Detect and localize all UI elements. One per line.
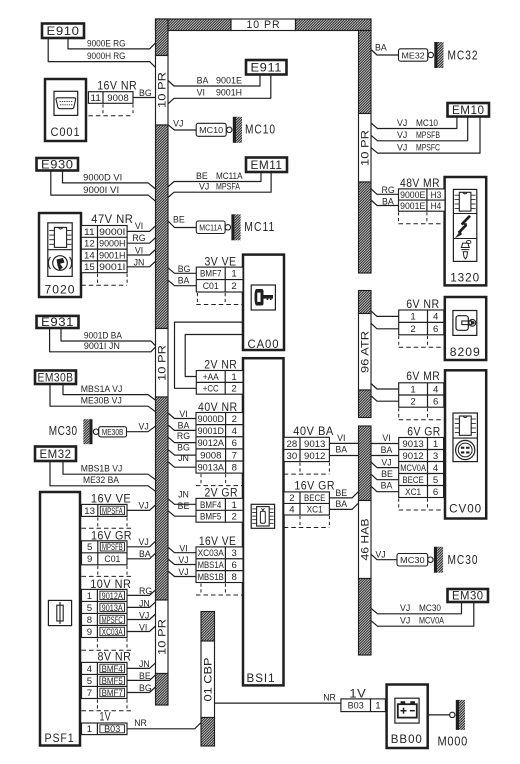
- svg-text:VI: VI: [179, 409, 187, 419]
- svg-text:4: 4: [289, 505, 294, 515]
- svg-text:16V NR: 16V NR: [97, 81, 137, 93]
- svg-text:10 PR: 10 PR: [360, 130, 372, 166]
- svg-text:ME30B: ME30B: [102, 427, 124, 437]
- svg-text:3: 3: [232, 548, 237, 558]
- svg-text:BG: BG: [139, 88, 152, 98]
- svg-text:1320: 1320: [450, 270, 480, 284]
- svg-text:MPSFB: MPSFB: [416, 130, 440, 140]
- svg-text:40V BA: 40V BA: [293, 426, 334, 438]
- svg-text:9012: 9012: [402, 451, 423, 461]
- svg-text:CV00: CV00: [449, 501, 482, 515]
- svg-text:2: 2: [289, 493, 294, 503]
- svg-text:BMF5: BMF5: [200, 512, 221, 522]
- svg-text:MC11A: MC11A: [199, 223, 222, 233]
- svg-text:VJ: VJ: [400, 603, 410, 613]
- svg-text:6: 6: [433, 487, 438, 497]
- svg-text:MPSFA: MPSFA: [216, 182, 240, 192]
- svg-text:VJ: VJ: [139, 610, 149, 620]
- svg-text:9: 9: [87, 554, 92, 564]
- svg-text:1: 1: [87, 724, 92, 734]
- svg-text:6: 6: [232, 560, 237, 570]
- svg-text:1: 1: [87, 591, 92, 601]
- svg-text:JN: JN: [178, 490, 189, 500]
- svg-text:40V NR: 40V NR: [198, 402, 238, 414]
- svg-text:BA: BA: [382, 196, 394, 206]
- svg-text:MC30: MC30: [49, 424, 78, 438]
- svg-text:2: 2: [232, 414, 237, 424]
- svg-text:9000I VI: 9000I VI: [83, 185, 119, 195]
- svg-text:MBS1A: MBS1A: [198, 560, 225, 570]
- svg-text:10 PR: 10 PR: [157, 619, 169, 655]
- svg-text:8209: 8209: [450, 345, 481, 359]
- svg-text:9000H: 9000H: [99, 239, 125, 249]
- svg-text:BG: BG: [177, 442, 190, 452]
- svg-text:VJ: VJ: [400, 616, 410, 626]
- svg-text:4: 4: [232, 426, 237, 436]
- svg-text:4: 4: [433, 384, 438, 394]
- svg-text:5: 5: [87, 603, 92, 613]
- svg-text:9001D: 9001D: [198, 426, 225, 436]
- svg-text:PSF1: PSF1: [45, 731, 75, 745]
- svg-text:BB00: BB00: [391, 732, 423, 746]
- svg-text:16V VE: 16V VE: [199, 536, 237, 548]
- svg-text:VJ: VJ: [375, 549, 385, 559]
- svg-text:EM30B: EM30B: [38, 372, 74, 384]
- svg-text:BE: BE: [381, 469, 393, 479]
- svg-text:9000I: 9000I: [99, 227, 125, 237]
- svg-text:C001: C001: [51, 125, 81, 139]
- svg-text:16V GR: 16V GR: [294, 480, 335, 492]
- svg-text:11: 11: [84, 227, 95, 237]
- svg-text:VJ: VJ: [139, 422, 149, 432]
- svg-text:8V NR: 8V NR: [97, 652, 131, 664]
- svg-text:MC32: MC32: [448, 48, 479, 62]
- svg-text:VI: VI: [337, 433, 345, 443]
- svg-text:RG: RG: [132, 233, 145, 243]
- svg-text:9001E: 9001E: [216, 75, 242, 85]
- svg-text:9: 9: [87, 627, 92, 637]
- svg-text:5: 5: [87, 676, 92, 686]
- svg-text:3V VE: 3V VE: [205, 256, 237, 268]
- svg-text:BA: BA: [381, 445, 393, 455]
- svg-text:6: 6: [232, 438, 237, 448]
- svg-text:NR: NR: [323, 693, 336, 703]
- svg-text:7: 7: [232, 450, 237, 460]
- svg-text:9001H: 9001H: [99, 250, 125, 260]
- svg-text:2: 2: [232, 512, 237, 522]
- svg-text:MCV0A: MCV0A: [400, 463, 426, 473]
- svg-text:2: 2: [410, 397, 415, 407]
- svg-text:VI: VI: [382, 433, 390, 443]
- svg-text:CA00: CA00: [248, 337, 280, 351]
- svg-text:VI: VI: [139, 622, 147, 632]
- svg-text:2: 2: [231, 384, 236, 394]
- svg-text:4: 4: [87, 664, 92, 674]
- svg-text:VI: VI: [135, 245, 143, 255]
- svg-text:2V NR: 2V NR: [204, 359, 237, 371]
- svg-text:ME32 BA: ME32 BA: [83, 475, 119, 485]
- svg-text:M000: M000: [438, 735, 469, 749]
- svg-text:MC30: MC30: [448, 553, 479, 567]
- svg-text:BE: BE: [335, 488, 347, 498]
- svg-text:H3: H3: [431, 190, 442, 200]
- svg-text:9001H: 9001H: [216, 88, 242, 98]
- svg-text:9001D BA: 9001D BA: [84, 330, 122, 340]
- svg-text:9013: 9013: [402, 439, 423, 449]
- svg-text:28: 28: [287, 439, 298, 449]
- svg-text:BE: BE: [196, 171, 208, 181]
- svg-text:XC03A: XC03A: [198, 548, 225, 558]
- svg-text:JN: JN: [139, 659, 150, 669]
- svg-text:MC10: MC10: [245, 122, 276, 136]
- svg-text:BE: BE: [139, 671, 151, 681]
- svg-text:BG: BG: [178, 264, 191, 274]
- svg-text:VJ: VJ: [397, 118, 407, 128]
- svg-text:MC10: MC10: [199, 125, 223, 135]
- svg-text:BA: BA: [197, 75, 209, 85]
- svg-text:BA: BA: [139, 549, 151, 559]
- svg-text:MBS1A VJ: MBS1A VJ: [81, 384, 123, 394]
- svg-text:13: 13: [84, 506, 95, 516]
- svg-text:MBS1B VJ: MBS1B VJ: [81, 464, 123, 474]
- svg-text:BSI1: BSI1: [247, 671, 276, 685]
- svg-text:7020: 7020: [45, 282, 76, 296]
- svg-text:16V VE: 16V VE: [91, 494, 131, 506]
- svg-text:1: 1: [231, 269, 236, 279]
- svg-text:9013A: 9013A: [198, 462, 225, 472]
- svg-text:46 HAB: 46 HAB: [360, 519, 372, 561]
- svg-text:EM32: EM32: [40, 449, 72, 461]
- svg-text:VJ: VJ: [178, 555, 188, 565]
- svg-text:9001I JN: 9001I JN: [84, 341, 120, 351]
- svg-text:1: 1: [410, 384, 415, 394]
- svg-text:1: 1: [232, 500, 237, 510]
- svg-text:9000E: 9000E: [400, 190, 425, 200]
- svg-text:9008: 9008: [200, 450, 221, 460]
- svg-text:MC10: MC10: [416, 118, 438, 128]
- svg-text:1: 1: [410, 312, 415, 322]
- svg-text:E910: E910: [47, 26, 80, 38]
- svg-text:10 PR: 10 PR: [157, 72, 169, 108]
- svg-text:RG: RG: [139, 586, 152, 596]
- svg-text:6V NR: 6V NR: [406, 299, 439, 311]
- svg-text:C01: C01: [104, 554, 120, 564]
- svg-text:3: 3: [433, 451, 438, 461]
- svg-text:1V: 1V: [349, 689, 366, 701]
- svg-text:E930: E930: [41, 159, 74, 171]
- svg-text:EM11: EM11: [251, 160, 283, 172]
- svg-text:VI: VI: [179, 543, 187, 553]
- svg-text:VJ: VJ: [139, 500, 149, 510]
- svg-text:VJ: VJ: [381, 458, 391, 468]
- svg-text:ME32: ME32: [402, 50, 425, 60]
- svg-text:MCV0A: MCV0A: [419, 616, 444, 626]
- svg-text:RG: RG: [177, 431, 190, 441]
- svg-text:16V GR: 16V GR: [91, 530, 132, 542]
- svg-text:JN: JN: [139, 598, 150, 608]
- svg-text:C01: C01: [203, 281, 219, 291]
- svg-text:48V MR: 48V MR: [400, 178, 440, 190]
- svg-text:VJ: VJ: [397, 143, 407, 153]
- svg-text:RG: RG: [382, 185, 395, 195]
- svg-text:MBS1B: MBS1B: [198, 572, 224, 582]
- svg-text:VI: VI: [135, 221, 143, 231]
- svg-text:MC11: MC11: [244, 220, 275, 234]
- svg-text:H4: H4: [431, 201, 442, 211]
- svg-text:01 CBP: 01 CBP: [203, 658, 215, 702]
- svg-text:8: 8: [87, 615, 92, 625]
- svg-text:BA: BA: [375, 42, 387, 52]
- svg-text:JN: JN: [134, 258, 145, 268]
- svg-text:BA: BA: [335, 445, 347, 455]
- svg-text:BA: BA: [335, 499, 347, 509]
- svg-text:BMF4: BMF4: [200, 500, 221, 510]
- svg-text:VJ: VJ: [139, 537, 149, 547]
- svg-text:9001I: 9001I: [99, 262, 125, 272]
- svg-text:BE: BE: [178, 501, 190, 511]
- svg-text:BMF7: BMF7: [200, 269, 221, 279]
- svg-text:10 PR: 10 PR: [247, 19, 281, 31]
- svg-text:12: 12: [84, 239, 95, 249]
- svg-text:MPSFC: MPSFC: [416, 143, 440, 153]
- svg-text:5: 5: [433, 475, 438, 485]
- svg-text:10 PR: 10 PR: [157, 345, 169, 381]
- svg-text:1: 1: [375, 701, 380, 711]
- svg-text:MC30: MC30: [400, 555, 425, 565]
- svg-text:+CC: +CC: [203, 384, 219, 394]
- svg-text:VI: VI: [197, 88, 205, 98]
- svg-text:VJ: VJ: [173, 119, 183, 129]
- svg-text:BECE: BECE: [304, 493, 325, 503]
- svg-text:6: 6: [433, 324, 438, 334]
- svg-text:14: 14: [84, 250, 95, 260]
- svg-text:9000D: 9000D: [198, 414, 225, 424]
- svg-text:8: 8: [232, 462, 237, 472]
- svg-text:B03: B03: [348, 701, 364, 711]
- svg-text:4: 4: [433, 312, 438, 322]
- svg-text:BE: BE: [173, 215, 185, 225]
- svg-text:E931: E931: [41, 317, 74, 329]
- svg-text:VJ: VJ: [397, 130, 407, 140]
- svg-text:VJ: VJ: [199, 182, 209, 192]
- svg-text:8: 8: [232, 572, 237, 582]
- svg-text:1V: 1V: [100, 711, 112, 723]
- svg-text:EM30: EM30: [452, 591, 484, 603]
- svg-text:9000H RG: 9000H RG: [87, 51, 126, 61]
- svg-text:7: 7: [87, 688, 92, 698]
- svg-text:VJ: VJ: [178, 567, 188, 577]
- svg-text:9000E RG: 9000E RG: [87, 38, 126, 48]
- svg-text:96 ATR: 96 ATR: [360, 331, 372, 373]
- svg-text:30: 30: [287, 451, 298, 461]
- svg-text:9008: 9008: [107, 93, 128, 103]
- svg-text:XC1: XC1: [405, 487, 421, 497]
- svg-text:9012A: 9012A: [198, 438, 225, 448]
- svg-text:MC30: MC30: [419, 603, 441, 613]
- svg-text:BG: BG: [139, 683, 152, 693]
- svg-text:BA: BA: [178, 421, 190, 431]
- svg-text:10V NR: 10V NR: [90, 579, 131, 591]
- svg-text:2: 2: [231, 281, 236, 291]
- svg-text:9000D VI: 9000D VI: [83, 173, 122, 183]
- svg-text:6V MR: 6V MR: [406, 371, 440, 383]
- svg-text:+AA: +AA: [203, 372, 220, 382]
- svg-text:9001E: 9001E: [400, 201, 425, 211]
- svg-text:6V GR: 6V GR: [407, 427, 441, 439]
- svg-text:9013: 9013: [304, 439, 325, 449]
- svg-text:9012: 9012: [304, 451, 325, 461]
- svg-text:5: 5: [87, 542, 92, 552]
- svg-text:BECE: BECE: [402, 475, 423, 485]
- svg-text:1: 1: [231, 372, 236, 382]
- svg-text:4: 4: [433, 463, 438, 473]
- svg-text:E911: E911: [251, 62, 283, 74]
- svg-text:11: 11: [90, 93, 101, 103]
- svg-text:47V NR: 47V NR: [91, 214, 133, 226]
- svg-text:MC11A: MC11A: [216, 171, 243, 181]
- svg-text:BA: BA: [381, 480, 393, 490]
- svg-text:ME30B VJ: ME30B VJ: [81, 396, 122, 406]
- svg-text:2: 2: [410, 324, 415, 334]
- svg-text:NR: NR: [134, 718, 147, 728]
- svg-text:6: 6: [433, 397, 438, 407]
- svg-text:2V GR: 2V GR: [204, 488, 238, 500]
- svg-text:EM10: EM10: [452, 105, 485, 117]
- svg-text:BA: BA: [178, 276, 190, 286]
- svg-text:JN: JN: [178, 453, 189, 463]
- svg-text:1: 1: [433, 439, 438, 449]
- svg-text:15: 15: [84, 262, 95, 272]
- svg-text:XC1: XC1: [307, 505, 323, 515]
